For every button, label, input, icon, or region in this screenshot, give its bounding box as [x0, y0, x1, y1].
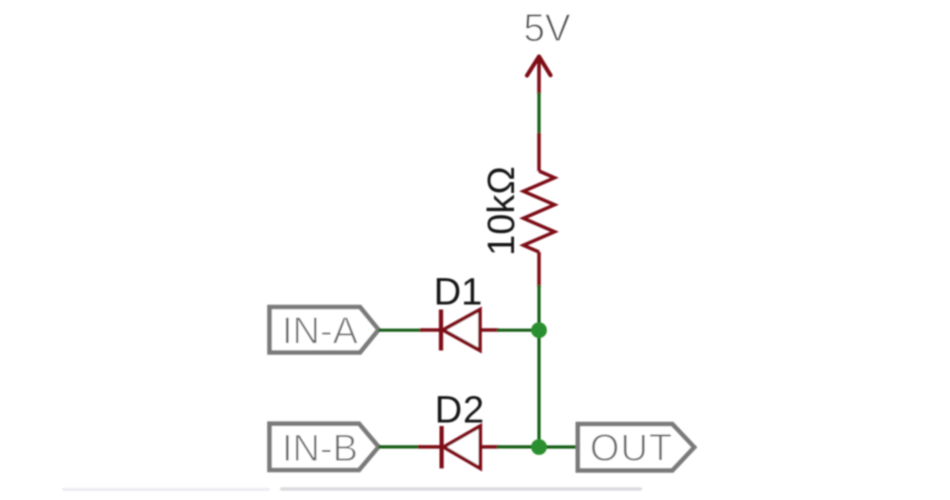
- svg-text:5V: 5V: [523, 7, 570, 50]
- svg-text:D2: D2: [435, 389, 485, 431]
- svg-text:IN-B: IN-B: [282, 428, 358, 470]
- svg-text:IN-A: IN-A: [282, 310, 359, 352]
- svg-text:10kΩ: 10kΩ: [481, 166, 523, 256]
- svg-text:OUT: OUT: [590, 427, 673, 469]
- svg-text:D1: D1: [434, 272, 483, 314]
